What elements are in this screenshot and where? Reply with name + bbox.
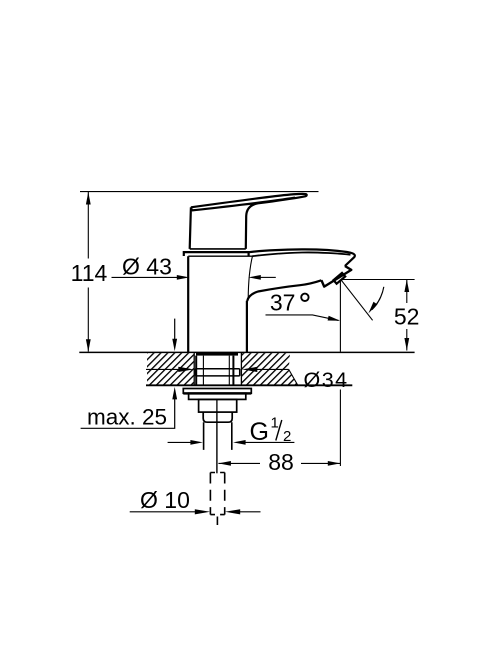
dimension O43 line right with arrow xyxy=(261,276,276,278)
dimension O43 extension line body right xyxy=(248,256,252,300)
spout underside curve xyxy=(247,280,321,301)
dimension O34 line left with arrow xyxy=(146,368,181,370)
dimension 37deg leader xyxy=(266,315,339,321)
locknut facet line xyxy=(216,399,218,412)
dimension 88 arrow left xyxy=(218,461,231,466)
max25 arrow up xyxy=(172,387,177,400)
svg-text:114: 114 xyxy=(71,260,108,286)
ray horizontal from outlet xyxy=(343,279,415,281)
locknut xyxy=(199,399,237,412)
svg-text:Ø 43: Ø 43 xyxy=(122,254,172,280)
body right edge xyxy=(246,301,248,353)
countertop surface line xyxy=(79,351,414,353)
dimension 52 arrow down xyxy=(404,338,409,351)
svg-text:52: 52 xyxy=(394,303,420,329)
faucet lever outline xyxy=(190,194,307,249)
svg-text:Ø 10: Ø 10 xyxy=(140,487,190,513)
svg-text:37: 37 xyxy=(270,290,296,316)
flexible hose dashed xyxy=(210,473,224,515)
countertop bottom line xyxy=(146,384,352,386)
dimension 114 extension line top xyxy=(80,191,319,193)
dimension O34 line right with arrow xyxy=(254,368,289,370)
shank base bar xyxy=(196,353,238,356)
shank outer walls xyxy=(196,356,233,386)
dimension 52 line xyxy=(406,280,408,351)
svg-text:max. 25: max. 25 xyxy=(87,405,167,430)
dimension 88 line xyxy=(218,462,340,464)
svg-text:Ø34: Ø34 xyxy=(304,368,349,392)
ray vertical stream line xyxy=(339,280,341,466)
svg-text:G: G xyxy=(250,418,269,446)
dimension 114 arrow down xyxy=(86,339,91,352)
center supply pipe line xyxy=(216,412,218,473)
faucet lever bottom line xyxy=(190,248,246,250)
countertop hole edge right xyxy=(240,352,242,385)
dimension O10 line left with arrow xyxy=(130,511,198,513)
body shoulder line xyxy=(188,255,252,257)
dimension O10 line right with arrow xyxy=(238,511,261,513)
svg-text:1: 1 xyxy=(271,415,279,432)
cartridge cap band xyxy=(184,252,249,256)
max25 upper line xyxy=(174,319,176,341)
ray diagonal 37deg xyxy=(341,280,372,320)
dimension 52 arrow up xyxy=(404,280,409,293)
countertop hatch right xyxy=(242,353,298,385)
max25 underline leader xyxy=(81,397,175,428)
dimension 88 arrow right xyxy=(328,461,341,466)
washer second xyxy=(189,393,246,399)
aerator block xyxy=(321,266,351,287)
tail pipe walls xyxy=(204,422,232,450)
dimension 114 arrow up xyxy=(86,192,91,205)
svg-text:88: 88 xyxy=(268,449,294,475)
shank inner lines xyxy=(203,356,229,386)
spout top outer line xyxy=(249,249,355,266)
dimension O34 leader diagonal xyxy=(289,369,298,385)
angle arc arrowhead xyxy=(368,302,377,314)
svg-text:2: 2 xyxy=(283,428,291,445)
dimension G half left arrow xyxy=(168,441,191,443)
angle arc xyxy=(372,287,384,310)
countertop hatch left xyxy=(147,353,194,385)
body left edge xyxy=(187,256,189,352)
spout top inner line xyxy=(253,252,351,256)
dimension O43 line left with arrow xyxy=(112,276,178,278)
aerator outlet xyxy=(334,273,346,284)
collar xyxy=(203,412,232,422)
dimension 114 vertical line xyxy=(87,192,89,352)
countertop hole edge left xyxy=(193,352,195,385)
shank flange band xyxy=(195,369,239,376)
dimension G half right arrow and line xyxy=(245,441,294,443)
hose axis tick xyxy=(216,517,218,526)
washer wide xyxy=(183,389,251,394)
max25 arrow down xyxy=(172,339,177,352)
